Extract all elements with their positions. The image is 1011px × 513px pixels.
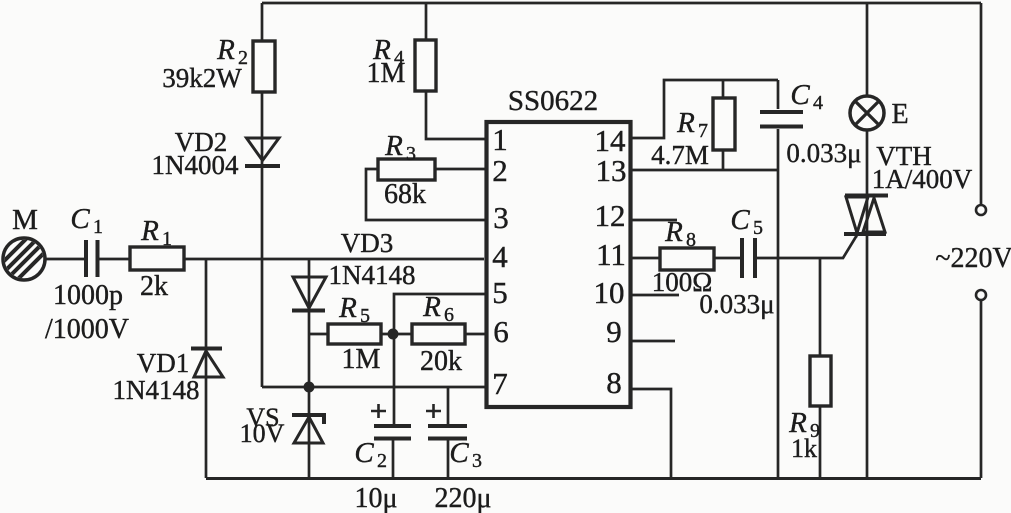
svg-text:13: 13 [596,153,627,188]
svg-text:7: 7 [698,120,708,142]
svg-text:68k: 68k [384,179,426,210]
svg-text:R: R [338,292,357,324]
svg-text:1: 1 [93,216,103,238]
svg-text:10V: 10V [240,419,285,448]
svg-text:E: E [891,99,908,130]
svg-text:1M: 1M [367,58,406,89]
svg-text:8: 8 [686,229,696,251]
svg-text:5: 5 [360,305,370,327]
svg-text:5: 5 [753,217,763,239]
svg-text:VD3: VD3 [341,228,394,258]
svg-text:20k: 20k [420,346,462,377]
svg-text:R: R [216,34,235,66]
svg-text:39k2W: 39k2W [162,63,242,93]
svg-text:1N4148: 1N4148 [113,375,200,405]
svg-text:C: C [70,203,90,235]
svg-text:/1000V: /1000V [45,314,129,345]
svg-text:1N4148: 1N4148 [329,260,416,290]
svg-text:1: 1 [162,228,172,250]
svg-text:SS0622: SS0622 [508,85,598,117]
svg-text:3: 3 [493,200,509,235]
svg-text:1M: 1M [342,344,381,375]
svg-text:R: R [140,215,159,247]
svg-text:11: 11 [596,237,626,272]
svg-text:C: C [449,437,469,469]
svg-text:12: 12 [595,198,626,233]
svg-text:7: 7 [492,366,508,401]
svg-text:3: 3 [406,143,416,165]
svg-text:220μ: 220μ [434,483,491,513]
svg-text:8: 8 [606,365,622,400]
svg-text:6: 6 [493,314,509,349]
svg-text:9: 9 [606,314,622,349]
svg-text:0.033μ: 0.033μ [699,289,774,319]
svg-text:1N4004: 1N4004 [152,150,239,180]
svg-text:VD1: VD1 [137,348,190,378]
svg-text:4.7M: 4.7M [651,140,709,170]
svg-text:R: R [664,216,683,248]
svg-text:6: 6 [444,304,454,326]
svg-text:10: 10 [594,275,625,310]
svg-text:4: 4 [492,239,508,274]
svg-text:R: R [422,291,441,323]
svg-text:C: C [354,437,374,469]
svg-text:5: 5 [492,275,508,310]
svg-text:R: R [384,130,403,162]
svg-text:10μ: 10μ [354,483,397,513]
svg-text:C: C [730,204,750,236]
svg-text:0.033μ: 0.033μ [786,138,861,168]
svg-text:R: R [676,107,695,139]
svg-text:2: 2 [377,450,387,472]
svg-text:~220V: ~220V [935,243,1011,274]
svg-text:1A/400V: 1A/400V [872,164,973,194]
svg-text:2: 2 [492,153,508,188]
svg-text:1k: 1k [791,434,817,463]
svg-text:3: 3 [472,450,482,472]
svg-text:1000p: 1000p [53,280,123,311]
svg-text:1: 1 [492,122,508,157]
svg-text:2k: 2k [140,271,168,302]
svg-text:M: M [12,204,38,236]
svg-text:C: C [790,79,810,111]
svg-text:4: 4 [813,92,823,114]
